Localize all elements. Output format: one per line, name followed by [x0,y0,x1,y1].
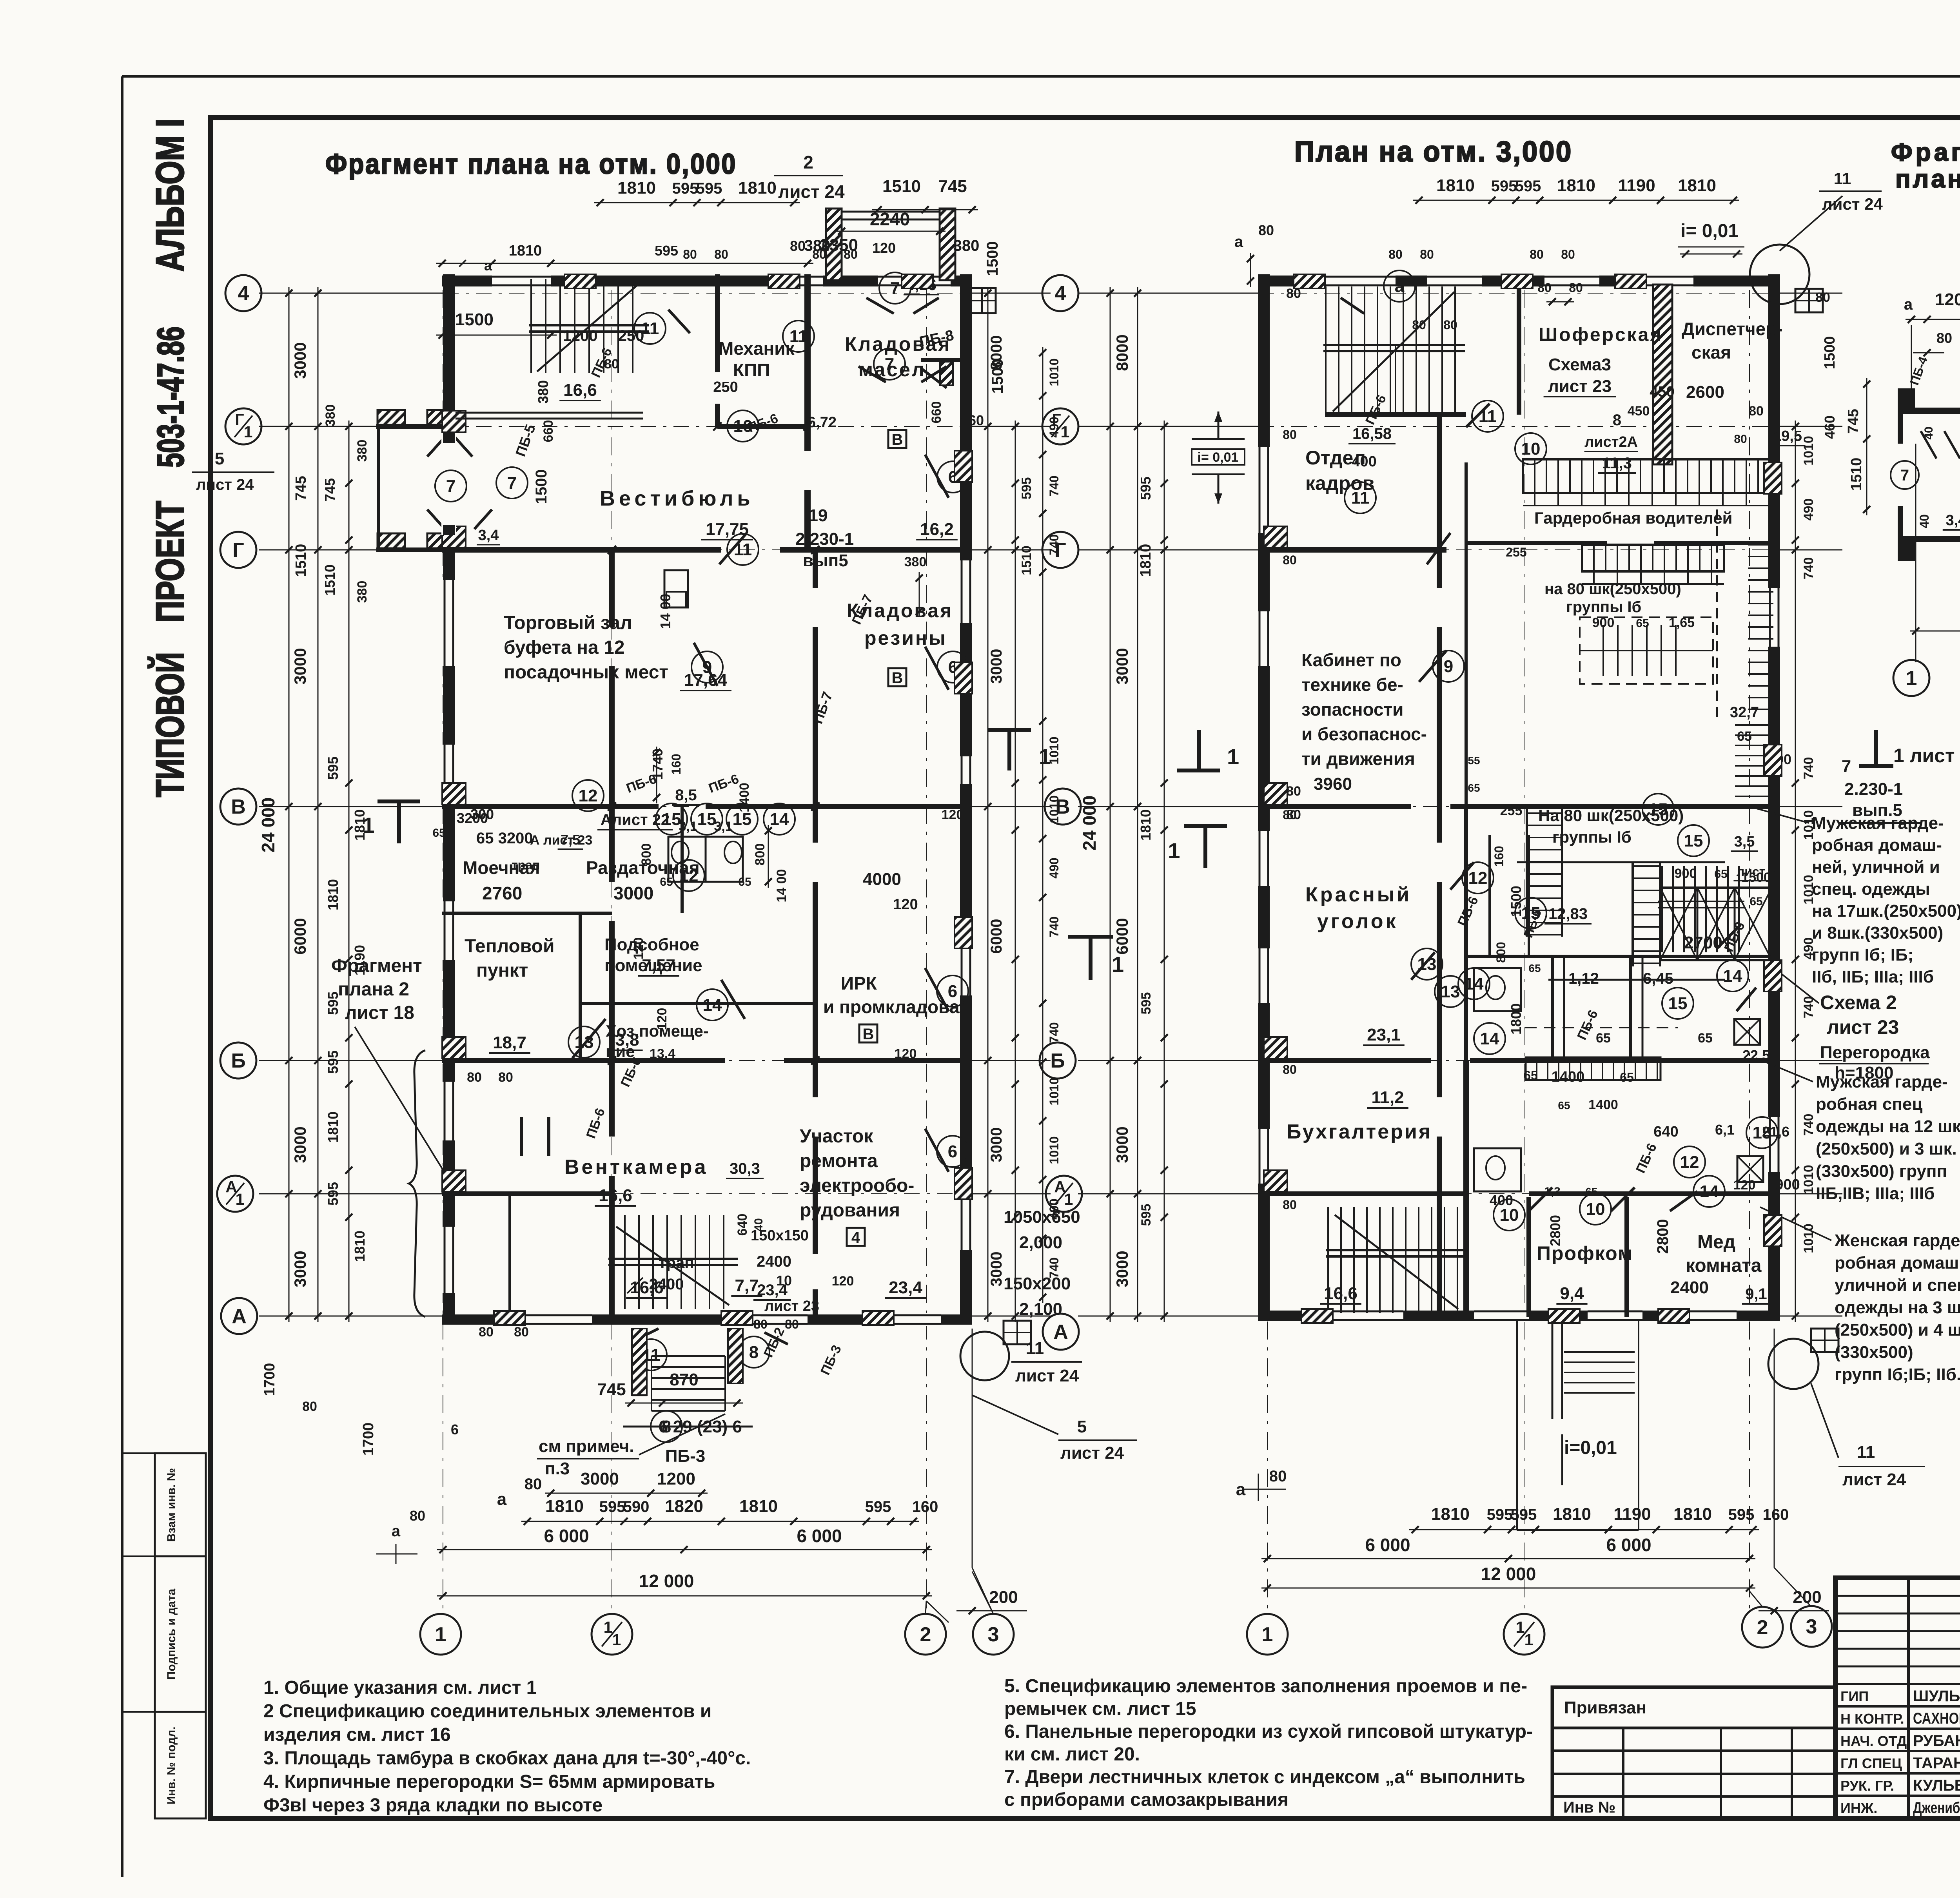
svg-text:7: 7 [507,473,517,493]
svg-text:В: В [231,796,246,818]
svg-text:ская: ская [1691,342,1731,363]
right plan G wall right half [1466,541,1607,545]
left plan top wall [442,276,972,286]
svg-text:595: 595 [1019,477,1034,500]
svg-text:5: 5 [1077,1417,1087,1436]
axis circle right В [1045,789,1081,825]
svg-text:1400: 1400 [1552,1069,1585,1085]
svg-text:4: 4 [238,282,249,305]
svg-text:6 000: 6 000 [797,1526,842,1546]
svg-text:80: 80 [1283,428,1297,442]
axis circle right Б [1040,1042,1076,1079]
wall axis G [442,547,721,553]
svg-text:16,58: 16,58 [1352,425,1392,442]
axis circle 4 [225,275,261,311]
svg-text:12 000: 12 000 [639,1571,694,1591]
i=0.01 box between plans [1192,449,1245,465]
svg-text:65: 65 [1558,1099,1570,1111]
svg-text:3000: 3000 [988,1128,1005,1162]
bottom axis circles left plan [420,1614,461,1655]
svg-text:80: 80 [1443,318,1457,332]
svg-text:IIБ,IIВ; IIIа; IIIб: IIБ,IIВ; IIIа; IIIб [1816,1184,1935,1203]
svg-text:1500: 1500 [1822,336,1838,370]
svg-text:трап: трап [512,858,540,872]
svg-text:65: 65 [1528,962,1541,974]
svg-text:1010: 1010 [1047,1136,1061,1164]
svg-text:15: 15 [1684,831,1703,850]
axis circle А [221,1298,257,1334]
svg-text:19,5: 19,5 [1773,428,1802,444]
svg-text:Алист 22: Алист 22 [601,811,670,828]
svg-text:i=0,01: i=0,01 [1564,1438,1617,1458]
svg-text:595: 595 [599,1498,626,1515]
position circles right plan [1472,401,1503,432]
svg-text:460: 460 [1822,415,1838,439]
svg-text:одежды на 3 шк.: одежды на 3 шк. [1835,1298,1960,1317]
stair bottom right plan [1327,1207,1329,1313]
svg-text:3: 3 [1806,1615,1817,1638]
section mark 1 list16 [1859,764,1893,768]
svg-text:групп Iб;IБ; IIб.: групп Iб;IБ; IIб. [1835,1365,1960,1384]
svg-text:11: 11 [789,327,808,346]
svg-text:800: 800 [1494,942,1508,963]
svg-text:80: 80 [1569,281,1583,295]
svg-text:6 000: 6 000 [1606,1535,1651,1555]
svg-text:65: 65 [1749,895,1762,908]
svg-text:лист 2: лист 2 [1737,865,1776,879]
svg-text:490: 490 [1047,857,1061,878]
left dim chains [289,287,290,1322]
svg-text:80: 80 [302,1399,317,1414]
svg-text:14: 14 [1700,1182,1719,1201]
svg-text:380: 380 [535,380,551,404]
right plan top wall [1258,276,1780,286]
svg-text:ти движения: ти движения [1301,749,1415,769]
svg-text:11: 11 [1834,169,1851,188]
svg-text:1200: 1200 [563,327,598,344]
svg-text:17,75: 17,75 [706,520,749,539]
vertical wall x11 [609,550,615,627]
svg-text:870: 870 [670,1370,698,1389]
svg-text:23,1: 23,1 [1367,1025,1401,1044]
svg-text:Г: Г [232,539,244,562]
svg-text:595: 595 [1139,992,1154,1015]
svg-text:255: 255 [1500,803,1523,818]
svg-text:740: 740 [1801,1114,1816,1136]
crossed boxes [1734,1019,1760,1045]
svg-text:лист 23: лист 23 [1548,377,1612,396]
svg-text:8000: 8000 [1113,334,1131,371]
svg-text:800: 800 [753,843,768,866]
svg-text:1510: 1510 [1019,546,1034,575]
svg-text:ПБ-3: ПБ-3 [665,1447,705,1466]
svg-text:1810: 1810 [1673,1505,1712,1524]
svg-text:15: 15 [1753,1123,1772,1142]
svg-text:электрообо-: электрообо- [800,1175,914,1196]
svg-text:10: 10 [1500,1206,1519,1225]
svg-text:1700: 1700 [261,1363,278,1396]
svg-text:65: 65 [1636,617,1649,630]
svg-text:595: 595 [1515,178,1541,195]
svg-text:лист 24: лист 24 [196,476,254,493]
stair landing edge left plan [456,412,643,414]
svg-text:1810: 1810 [352,1231,368,1262]
svg-text:ки см. лист 20.: ки см. лист 20. [1004,1744,1140,1765]
svg-text:Фрагмент плана на отм. 0,00: Фрагмент плана на отм. 0,000 [325,149,737,180]
svg-text:1810: 1810 [1557,176,1595,195]
svg-text:а: а [392,1523,401,1540]
svg-text:2: 2 [1757,1616,1768,1639]
svg-text:12,83: 12,83 [1548,905,1588,923]
wc fixtures left plan [668,837,706,882]
svg-text:595: 595 [325,756,341,780]
svg-text:1810: 1810 [617,178,656,198]
svg-text:80: 80 [1537,281,1552,295]
svg-text:80: 80 [1561,247,1575,261]
svg-text:Схема3: Схема3 [1548,355,1611,374]
svg-text:1010: 1010 [1047,795,1061,823]
svg-text:160: 160 [1492,846,1506,867]
svg-text:65: 65 [432,827,445,839]
svg-text:1400: 1400 [737,783,752,812]
svg-text:14: 14 [703,995,722,1015]
svg-text:Б: Б [1050,1050,1065,1072]
svg-text:595: 595 [865,1498,891,1515]
axis circle В [220,789,256,825]
svg-text:3,5: 3,5 [1734,834,1755,850]
svg-text:80: 80 [1283,1198,1297,1212]
section marks pair near V axis [988,728,1031,732]
title block signature columns [1907,1578,1910,1818]
partitions lower left [442,912,612,915]
svg-text:40: 40 [752,1218,765,1231]
svg-text:380: 380 [355,440,370,462]
svg-text:Женская гарде-: Женская гарде- [1834,1231,1960,1250]
svg-text:3000: 3000 [581,1469,619,1488]
svg-text:120: 120 [872,240,896,256]
wall G/1 porch [376,424,455,429]
svg-text:рудования: рудования [800,1200,900,1221]
svg-text:3000: 3000 [613,883,653,903]
svg-text:ТИПОВОЙ: ТИПОВОЙ [148,652,192,797]
svg-text:80: 80 [1412,318,1426,332]
svg-text:1: 1 [1168,838,1180,863]
svg-text:технике бе-: технике бе- [1301,674,1403,695]
svg-text:2800: 2800 [1654,1219,1671,1254]
svg-text:3000: 3000 [291,342,309,379]
svg-text:595: 595 [655,243,678,259]
svg-text:1190: 1190 [1618,176,1655,195]
svg-text:уголок: уголок [1317,910,1398,933]
svg-text:7: 7 [1900,467,1909,484]
svg-text:745: 745 [293,476,309,500]
svg-text:15: 15 [1521,904,1541,923]
svg-text:1810: 1810 [1553,1505,1591,1524]
svg-text:Инв №: Инв № [1563,1799,1615,1816]
svg-text:Участок: Участок [800,1126,873,1147]
svg-text:робная домашней: робная домашней [1835,1253,1960,1273]
svg-text:4: 4 [851,1229,860,1246]
svg-text:450: 450 [1650,384,1674,400]
svg-text:НАЧ. ОТД: НАЧ. ОТД [1840,1733,1907,1749]
svg-text:1810: 1810 [325,879,341,910]
main frame [211,118,1960,1818]
svg-text:503-1-47.86: 503-1-47.86 [150,326,192,468]
svg-text:1510: 1510 [293,544,309,577]
bottom dashed box right plan [1516,1321,1518,1530]
svg-text:120: 120 [893,896,918,913]
svg-text:2800: 2800 [1547,1215,1563,1246]
svg-text:Подсобное: Подсобное [604,935,699,954]
boxed letters [888,430,906,448]
svg-text:3000: 3000 [291,648,309,684]
svg-text:ИНЖ.: ИНЖ. [1840,1800,1877,1816]
svg-text:15: 15 [697,810,717,829]
stair bottom left plan [610,1215,612,1309]
svg-text:380: 380 [953,237,980,254]
svg-text:19: 19 [809,506,828,525]
lockers rows right plan [1523,459,1772,493]
svg-text:В: В [892,431,903,448]
svg-text:9,1: 9,1 [1745,1285,1767,1303]
axis circle right А/1 [1046,1176,1082,1212]
svg-text:7: 7 [890,279,900,298]
svg-text:Г: Г [235,410,244,428]
svg-text:лист 18: лист 18 [345,1002,414,1023]
svg-text:595: 595 [696,180,722,197]
svg-text:Дженибалаева: Дженибалаева [1913,1799,1960,1816]
svg-text:1510: 1510 [882,177,921,196]
svg-text:250: 250 [713,379,738,395]
svg-text:Шоферская: Шоферская [1539,324,1662,345]
svg-text:6,1: 6,1 [1715,1122,1735,1138]
axis circle А/1 [217,1176,253,1212]
axis circle right Г/1 [1042,408,1078,444]
svg-text:6,45: 6,45 [1643,970,1673,987]
svg-text:3,4: 3,4 [478,527,499,544]
svg-text:Инв. № подл.: Инв. № подл. [165,1726,178,1804]
svg-text:1510: 1510 [322,564,338,596]
svg-text:1810: 1810 [352,809,368,841]
svg-text:В: В [892,669,903,687]
small partitions vent [520,1117,523,1156]
svg-text:изделия см. лист 16: изделия см. лист 16 [263,1724,451,1745]
svg-text:65: 65 [660,876,673,888]
svg-text:660: 660 [929,401,944,424]
svg-text:1700: 1700 [360,1423,377,1456]
svg-text:595: 595 [325,1182,341,1206]
svg-text:65: 65 [1620,1070,1634,1084]
svg-text:Взам инв. №: Взам инв. № [165,1468,178,1542]
svg-text:Мед: Мед [1697,1232,1735,1253]
svg-text:1: 1 [1906,667,1917,690]
svg-text:вып5: вып5 [803,551,848,570]
small leader arcs bottom left plan [926,1601,949,1622]
svg-text:595: 595 [1491,178,1517,195]
section mark 1 right plan left [1184,824,1227,828]
svg-text:16,6: 16,6 [563,381,597,400]
svg-text:Бухгалтерия: Бухгалтерия [1287,1120,1432,1143]
svg-text:900: 900 [1775,1177,1800,1193]
svg-text:80: 80 [467,1070,482,1085]
svg-text:6: 6 [451,1421,459,1438]
svg-text:80: 80 [498,1070,513,1085]
svg-text:зопасности: зопасности [1301,699,1403,720]
redraw door circle 7 over gap [435,470,466,502]
svg-text:11: 11 [1026,1339,1044,1358]
svg-text:160: 160 [669,754,683,774]
axis circle right А [1043,1314,1079,1350]
svg-text:ремычек см. лист 15: ремычек см. лист 15 [1004,1699,1196,1719]
svg-text:9: 9 [1444,657,1453,676]
svg-text:3200: 3200 [457,810,488,826]
svg-text:11: 11 [1351,488,1370,508]
stamp small boxes [155,1453,206,1556]
svg-text:23,4: 23,4 [889,1278,922,1297]
svg-text:6: 6 [948,1142,957,1161]
svg-text:1500: 1500 [984,241,1001,276]
position circles left plan [634,313,666,344]
svg-text:групп Iб; IБ;: групп Iб; IБ; [1812,945,1913,964]
svg-text:740: 740 [1801,757,1816,780]
svg-text:11: 11 [1479,407,1497,426]
svg-text:80: 80 [514,1325,529,1340]
svg-text:(250х500) и 3 шк.: (250х500) и 3 шк. [1816,1139,1957,1158]
svg-text:КУЛЬВЕЦ: КУЛЬВЕЦ [1913,1777,1960,1794]
svg-text:2600: 2600 [1686,383,1724,402]
svg-text:12: 12 [1468,868,1488,888]
svg-text:Красный: Красный [1305,883,1412,906]
svg-text:Кабинет по: Кабинет по [1301,650,1401,670]
svg-text:(330х500): (330х500) [1835,1343,1913,1362]
svg-text:п.3: п.3 [545,1459,570,1478]
svg-text:1820: 1820 [665,1497,703,1516]
svg-text:80: 80 [753,1317,768,1331]
svg-text:595: 595 [1728,1506,1755,1523]
svg-text:1200: 1200 [1935,290,1960,309]
axis circle Г/1 [225,408,261,444]
svg-text:План на отм. 3,000: План на отм. 3,000 [1294,135,1573,168]
svg-text:Вестибюль: Вестибюль [600,487,754,510]
svg-text:7: 7 [885,355,894,374]
svg-text:1200: 1200 [657,1469,695,1488]
svg-text:400: 400 [1352,453,1376,470]
svg-text:робная домаш-: робная домаш- [1812,836,1942,855]
svg-text:трап: трап [659,1254,694,1271]
svg-text:8: 8 [1613,412,1621,429]
svg-text:6. Панельные перегородки из: 6. Панельные перегородки из сухой гипсов… [1004,1721,1533,1742]
svg-text:1810: 1810 [1678,176,1716,195]
svg-text:лист 24: лист 24 [1015,1366,1079,1385]
svg-text:ТАРАН: ТАРАН [1913,1755,1960,1772]
title block outer [1835,1578,1960,1818]
svg-text:7. Двери лестничных клеток: 7. Двери лестничных клеток с индексом „а… [1004,1767,1525,1787]
svg-text:80: 80 [812,247,826,261]
svg-text:8,5: 8,5 [675,787,697,804]
svg-text:8000: 8000 [988,335,1005,370]
svg-text:1,12: 1,12 [1568,970,1599,987]
svg-text:490: 490 [1801,499,1816,521]
top dim chain right plan [1413,200,1739,201]
svg-text:80: 80 [1283,808,1297,822]
svg-text:13,4: 13,4 [650,1046,675,1061]
svg-text:5. Спецификацию элементов за: 5. Спецификацию элементов заполнения про… [1004,1676,1527,1697]
svg-text:7: 7 [1842,757,1851,776]
svg-text:745: 745 [597,1380,626,1399]
svg-text:ГЛ СПЕЦ: ГЛ СПЕЦ [1840,1755,1902,1771]
svg-text:АЛЬБОМ I: АЛЬБОМ I [148,119,192,272]
axis circle Г [220,532,256,568]
middle dim chain cluster (right of left plan) [987,287,989,1322]
svg-text:5: 5 [215,449,224,468]
svg-text:1810: 1810 [738,178,777,198]
svg-text:1510: 1510 [1848,458,1865,491]
svg-text:3,1: 3,1 [679,819,697,834]
svg-text:12 000: 12 000 [1481,1564,1536,1584]
axis circle Б [220,1042,256,1079]
svg-text:595: 595 [1487,1506,1513,1523]
svg-text:65: 65 [1468,782,1480,794]
svg-text:3: 3 [988,1623,999,1646]
svg-text:Гардеробная водителей: Гардеробная водителей [1534,509,1732,527]
svg-text:24 000: 24 000 [1079,796,1100,851]
svg-text:14: 14 [1465,974,1484,993]
svg-text:1,65: 1,65 [1669,615,1695,630]
svg-text:490: 490 [1047,1198,1061,1219]
svg-text:120: 120 [1733,1178,1756,1193]
svg-text:1: 1 [1516,1618,1525,1636]
svg-text:Б: Б [231,1050,245,1072]
locker teeth rows [1534,493,1535,506]
svg-text:i= 0,01: i= 0,01 [1681,221,1739,241]
fragment detail top right [1906,319,1960,320]
svg-text:11: 11 [1857,1443,1875,1462]
svg-text:250: 250 [618,327,644,344]
svg-text:6000: 6000 [988,919,1005,954]
entrance gap in left wall of left plan [441,433,456,535]
svg-text:1500: 1500 [455,310,494,329]
svg-text:плана 1: плана 1 [1895,165,1960,193]
svg-text:группы Iб: группы Iб [1552,828,1632,846]
svg-text:1. Общие указания см.: 1. Общие указания см. лист 1 [263,1677,537,1698]
svg-text:4: 4 [1055,282,1066,305]
svg-text:2: 2 [803,152,813,172]
svg-text:уличной и спец.: уличной и спец. [1835,1276,1960,1295]
right plan left wall [1258,274,1270,1321]
svg-text:11,2: 11,2 [1371,1088,1404,1107]
svg-text:80: 80 [1269,1468,1287,1485]
svg-text:590: 590 [623,1498,650,1515]
svg-text:15: 15 [1649,800,1668,819]
svg-text:Фрагмент: Фрагмент [1891,138,1960,166]
svg-text:ремонта: ремонта [800,1151,878,1171]
svg-text:3960: 3960 [1314,774,1352,794]
svg-text:80: 80 [1936,330,1952,346]
svg-text:ней, уличной и: ней, уличной и [1812,857,1940,877]
svg-text:а: а [1234,233,1243,250]
svg-text:а: а [497,1490,507,1509]
extra interior ticks left plan [608,546,616,554]
svg-text:1810: 1810 [545,1497,584,1516]
svg-text:14: 14 [1723,966,1742,986]
svg-text:80: 80 [1815,290,1830,305]
svg-text:Венткамера: Венткамера [564,1156,708,1178]
svg-text:2760: 2760 [482,883,522,903]
left plan axis lines [259,293,443,294]
svg-text:3000: 3000 [291,1251,309,1287]
svg-text:745: 745 [322,478,338,502]
svg-text:1810: 1810 [1138,809,1154,841]
